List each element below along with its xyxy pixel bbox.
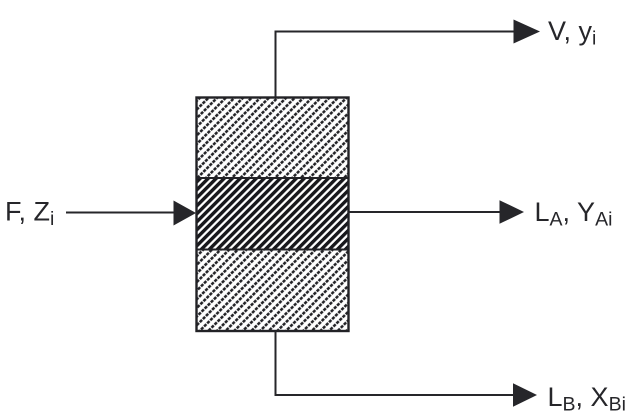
svg-text:LA, YAi: LA, YAi <box>535 197 613 231</box>
vessel middle section (dark hatch) <box>196 178 349 250</box>
svg-text:LB, XBi: LB, XBi <box>548 382 626 416</box>
vessel bottom section (light hatch) <box>196 250 349 332</box>
vessel top section (light hatch) <box>196 97 349 178</box>
wire vapor line (top pipe) <box>276 32 516 98</box>
svg-text:V, yi: V, yi <box>548 16 596 50</box>
arrowhead feed <box>174 201 197 226</box>
wire bottoms line (bottom pipe) <box>276 331 516 395</box>
arrowhead V stream <box>514 20 541 44</box>
wire feed line <box>66 212 176 214</box>
arrowhead LA stream <box>500 200 525 224</box>
svg-text:F, Zi: F, Zi <box>5 197 54 231</box>
vessel outer border <box>197 98 349 332</box>
wire LA line <box>349 211 501 213</box>
divider line middle/bottom <box>196 249 349 251</box>
divider line top/middle <box>196 177 349 179</box>
arrowhead LB stream <box>513 383 537 407</box>
